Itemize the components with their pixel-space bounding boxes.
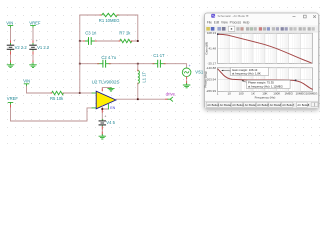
- svg-text:V2 2.2: V2 2.2: [15, 45, 28, 50]
- junction opamp V-: [101, 108, 103, 110]
- svg-text:Schematic - AC Bode 'B': Schematic - AC Bode 'B': [218, 14, 250, 18]
- toolbar: [205, 25, 318, 32]
- wire opamp V+ to ground: [102, 88, 111, 91]
- wire +in: [80, 92, 92, 94]
- wire VS1 to ground: [186, 77, 188, 84]
- svg-text:Gain (dB): Gain (dB): [204, 42, 208, 55]
- axis labels phase: [206, 66, 217, 93]
- svg-text:C2 4.7u: C2 4.7u: [101, 55, 116, 60]
- svg-text:C3 1n: C3 1n: [85, 31, 97, 36]
- svg-text:VIN: VIN: [23, 79, 30, 84]
- svg-text:AC Bode5: AC Bode5: [257, 103, 269, 107]
- tab bar: [205, 101, 318, 108]
- junction opamp +in: [79, 92, 81, 94]
- svg-text:drive: drive: [166, 91, 176, 96]
- svg-text:1MEG: 1MEG: [284, 92, 293, 96]
- svg-text:AC Bode3: AC Bode3: [232, 103, 244, 107]
- svg-text:AC Bode2: AC Bode2: [220, 103, 232, 107]
- wire feedback top loop: [80, 15, 138, 41]
- source VS1: [182, 64, 204, 77]
- window controls: [293, 15, 316, 18]
- wire V2 to ground: [10, 51, 12, 63]
- capacitor C3: [84, 31, 98, 45]
- node VREF (lower tie): [7, 96, 19, 105]
- svg-text:R1 10MEG: R1 10MEG: [99, 18, 120, 23]
- svg-text:100MEG: 100MEG: [306, 92, 319, 96]
- svg-text:File Edit View Process Hel: File Edit View Process Help: [207, 20, 250, 24]
- wire feedback row3 / C1 branch: [80, 41, 187, 68]
- svg-text:AC Bode8: AC Bode8: [297, 103, 309, 107]
- pin EN: [108, 104, 115, 109]
- wire V4 to ground: [101, 126, 103, 134]
- inductor L1: [138, 70, 147, 84]
- svg-text:+: +: [13, 39, 15, 43]
- ground (VS1): [183, 84, 190, 88]
- svg-text:100: 100: [239, 92, 244, 96]
- svg-text:C1 1T: C1 1T: [153, 53, 165, 58]
- battery V4: [99, 119, 115, 126]
- svg-text:-140.88: -140.88: [206, 66, 217, 70]
- svg-text:V1 2.2: V1 2.2: [37, 45, 50, 50]
- axis labels gain: [207, 31, 217, 65]
- annotation gain margin: [221, 68, 268, 76]
- analysis window: [203, 13, 318, 109]
- svg-text:EN: EN: [110, 106, 115, 110]
- resistor R1: [99, 13, 120, 23]
- wire VREF tie to V1: [32, 28, 34, 44]
- wire R5 to rail junction: [64, 92, 80, 94]
- node VIN (lower tie): [23, 79, 30, 87]
- node VREF (top-left tie): [29, 21, 41, 28]
- gain curve: [218, 34, 312, 63]
- battery V1: [30, 39, 50, 51]
- svg-text:-25.17: -25.17: [207, 61, 216, 65]
- wire right rail row3 to L1: [137, 64, 139, 71]
- wire L1 to output: [137, 84, 139, 100]
- wire VIN tie to V2: [10, 28, 12, 44]
- resistor R7: [119, 31, 132, 43]
- junction row2 right: [137, 40, 139, 42]
- svg-text:41.48: 41.48: [208, 46, 216, 50]
- svg-text:VREF: VREF: [29, 21, 41, 26]
- title bar icon: [211, 14, 215, 18]
- wire opamp V- down / EN link: [102, 105, 108, 119]
- svg-text:AC Bode7: AC Bode7: [282, 103, 294, 107]
- ground (opamp V+): [108, 88, 114, 91]
- wire VREF to -in: [11, 105, 93, 121]
- svg-text:Frequency (Hz): Frequency (Hz): [255, 96, 276, 100]
- junction output rail: [137, 98, 139, 100]
- phase curve: [218, 69, 313, 90]
- x axis labels: [217, 92, 318, 96]
- ground (V2): [7, 63, 14, 68]
- svg-text:+: +: [189, 64, 191, 68]
- svg-text:U2 TLV9002S: U2 TLV9002S: [92, 79, 120, 84]
- svg-text:+: +: [104, 115, 106, 119]
- svg-text:108.13: 108.13: [207, 31, 217, 35]
- svg-text:V4 5: V4 5: [106, 120, 115, 125]
- capacitor C2: [98, 55, 117, 67]
- svg-text:L1 1T: L1 1T: [142, 71, 147, 82]
- svg-text:AC Bode6: AC Bode6: [270, 103, 282, 107]
- schematic wires and components: [6, 13, 204, 139]
- plot gain panel: [217, 33, 312, 63]
- wire left rail row3 to opamp: [79, 64, 81, 93]
- svg-text:at frequency (Hz): 1.12MEG: at frequency (Hz): 1.12MEG: [248, 84, 283, 88]
- svg-text:Phase (deg): Phase (deg): [203, 71, 207, 87]
- resistor R5: [50, 91, 64, 101]
- wire V1 to ground: [32, 51, 34, 63]
- op-amp U2: [92, 79, 120, 108]
- junction row3 right: [137, 63, 139, 65]
- battery V2: [7, 39, 27, 51]
- junction row2 left: [79, 40, 81, 42]
- wire opamp output: [116, 98, 168, 100]
- svg-text:+: +: [36, 39, 38, 43]
- svg-text:AC Bode4: AC Bode4: [245, 103, 257, 107]
- svg-text:R7 1k: R7 1k: [119, 31, 131, 36]
- plot phase panel: [217, 68, 312, 92]
- svg-text:R5 10k: R5 10k: [50, 96, 64, 101]
- svg-text:VREF: VREF: [7, 96, 19, 101]
- svg-text:-203.94: -203.94: [206, 77, 217, 81]
- svg-text:AC Bode1: AC Bode1: [207, 103, 219, 107]
- ground (V1): [30, 63, 37, 68]
- annotation phase margin: [242, 80, 291, 88]
- ground (V4): [99, 135, 106, 139]
- plot gridlines: [221, 33, 312, 91]
- svg-text:VIN: VIN: [6, 21, 13, 26]
- junction row3 left: [79, 63, 81, 65]
- capacitor C1: [153, 53, 165, 67]
- node VIN (top-left tie): [6, 21, 13, 28]
- wire VIN tie to R5: [27, 86, 52, 93]
- wire feedback row2: [80, 40, 138, 42]
- node drive (tie): [166, 91, 176, 101]
- window frame: [205, 13, 319, 109]
- svg-text:10: 10: [228, 92, 232, 96]
- svg-text:at frequency (Hz): 1.8K: at frequency (Hz): 1.8K: [232, 72, 261, 76]
- svg-text:-266.99: -266.99: [206, 89, 217, 93]
